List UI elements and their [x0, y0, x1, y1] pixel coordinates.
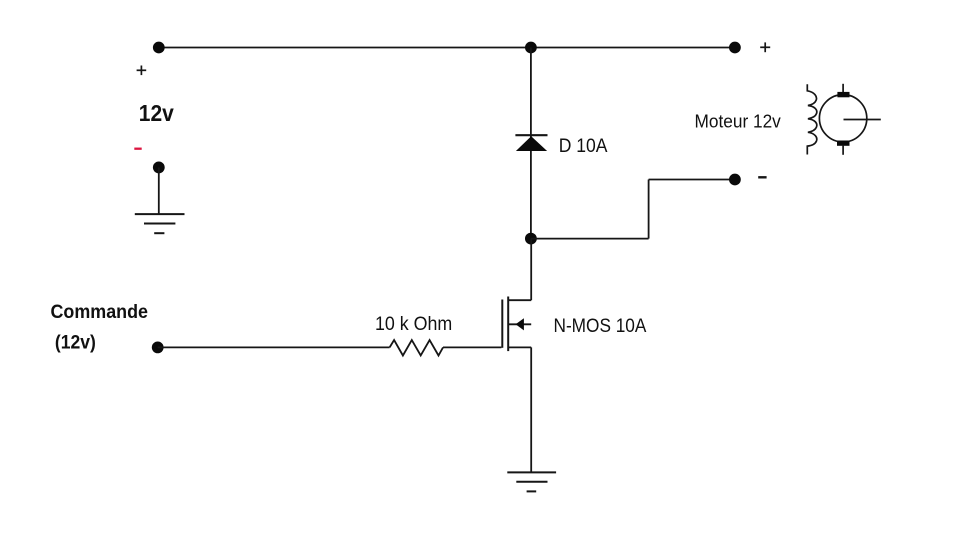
wire top junction down through diode to drain node	[530, 48, 532, 239]
diode D1 anode triangle	[516, 136, 547, 151]
transistor Q1 body stub	[508, 323, 531, 325]
node motor + terminal	[729, 42, 741, 54]
ground (source)	[507, 472, 556, 491]
motor M1 field coil	[807, 84, 816, 154]
wire top rail V+	[159, 47, 735, 49]
label - (motor negative)	[758, 176, 766, 178]
svg-text:N-MOS 10A: N-MOS 10A	[554, 316, 647, 337]
svg-text:Commande: Commande	[51, 301, 149, 323]
label + (motor positive)	[760, 42, 770, 52]
motor M1 top terminal tick	[842, 84, 844, 94]
wire motor negative riser (vertical)	[648, 180, 650, 239]
wire source to ground	[530, 347, 532, 472]
resistor R1 10k zigzag	[390, 340, 443, 356]
wire resistor to gate	[443, 346, 501, 348]
wire command input to resistor	[158, 346, 390, 348]
motor M1 bottom brush	[837, 141, 850, 146]
transistor Q1 channel bar	[507, 297, 509, 352]
wire drain node to drain stub	[530, 239, 532, 301]
wire battery negative to ground	[158, 167, 160, 214]
diode D1 cathode bar	[515, 134, 547, 136]
node battery + terminal	[153, 42, 165, 54]
node drain junction	[525, 233, 537, 245]
transistor Q1 body arrow	[516, 318, 524, 330]
label - (battery negative, red)	[134, 148, 141, 150]
transistor Q1 source stub	[508, 346, 531, 348]
motor M1 shaft line	[844, 119, 881, 121]
svg-text:(12v): (12v)	[55, 331, 96, 353]
transistor Q1 gate bar	[501, 300, 503, 348]
node diode top junction	[525, 42, 537, 54]
motor M1 top brush	[837, 92, 849, 97]
motor M1 bottom terminal tick	[842, 145, 844, 155]
wire drain node to motor negative (horizontal)	[531, 238, 649, 240]
node battery - terminal	[153, 162, 165, 174]
label + (battery positive)	[137, 66, 147, 76]
wire riser to motor - node (horizontal)	[649, 179, 735, 181]
node command input	[152, 342, 164, 354]
svg-text:10 k Ohm: 10 k Ohm	[375, 313, 452, 335]
svg-text:D 10A: D 10A	[559, 136, 608, 157]
ground (battery)	[135, 214, 185, 233]
motor M1 body circle	[819, 95, 866, 142]
svg-text:12v: 12v	[139, 100, 174, 126]
svg-text:Moteur 12v: Moteur 12v	[695, 110, 782, 131]
node motor - terminal	[729, 174, 741, 186]
transistor Q1 drain stub	[508, 299, 531, 301]
